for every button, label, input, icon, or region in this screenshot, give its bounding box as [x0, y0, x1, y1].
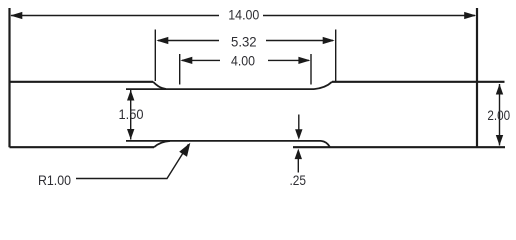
gauge top edge (with left extension) — [126, 88, 314, 90]
specimen left edge (also 14.00 extension line) — [8, 8, 10, 147]
grip bottom edge left — [10, 146, 155, 148]
extension line 4.00 left — [179, 54, 181, 85]
grip top edge left — [10, 81, 154, 83]
leader line R1.00 — [76, 144, 189, 178]
gauge bottom edge (with left extension) — [126, 140, 321, 142]
extension line 5.32 right — [335, 30, 337, 83]
arrowhead 2.00 bottom — [496, 135, 503, 146]
specimen right edge (also 14.00 extension line) — [476, 8, 478, 147]
grip top edge right (with 2.00 extension) — [332, 81, 505, 83]
svg-text:2.00: 2.00 — [487, 107, 510, 123]
dimension line 2.00 — [499, 84, 501, 146]
arrowhead 4.00 left — [180, 57, 192, 64]
svg-text:R1.00: R1.00 — [38, 172, 71, 188]
dimension .25 lower arrow shaft — [297, 159, 299, 173]
arrowhead 1.50 top — [127, 90, 134, 101]
arrowhead 5.32 right — [323, 37, 335, 44]
arrowhead 2.00 top — [496, 84, 503, 95]
arrowhead 5.32 left — [156, 37, 168, 44]
dimension line 14.00 — [11, 15, 475, 17]
dimension line 4.00 — [182, 59, 309, 61]
arrowhead 1.50 bottom — [127, 129, 134, 140]
svg-text:.25: .25 — [290, 172, 307, 188]
extension line 5.32 left — [154, 30, 156, 82]
svg-text:4.00: 4.00 — [231, 53, 255, 69]
dimension line 5.32 — [158, 40, 333, 42]
bottom-right fillet — [321, 141, 330, 147]
svg-text:1.50: 1.50 — [119, 106, 144, 122]
arrowhead .25 upper (points down) — [295, 129, 302, 140]
dimension line 1.50 — [130, 90, 132, 140]
arrowhead 14.00 right — [464, 12, 476, 19]
svg-text:5.32: 5.32 — [231, 34, 257, 50]
arrowhead 4.00 right — [298, 57, 310, 64]
dimension .25 upper arrow shaft — [298, 115, 300, 130]
arrowhead 14.00 left — [10, 12, 22, 19]
svg-text:14.00: 14.00 — [228, 6, 259, 22]
bottom-left fillet — [154, 141, 170, 147]
extension line 4.00 right — [310, 54, 312, 85]
top-left fillet — [153, 82, 166, 89]
top-right fillet — [314, 82, 332, 89]
arrowhead .25 lower (points up) — [295, 149, 302, 160]
grip bottom edge right (with left and right extensions) — [293, 146, 505, 148]
arrowhead R1.00 leader — [179, 143, 190, 157]
